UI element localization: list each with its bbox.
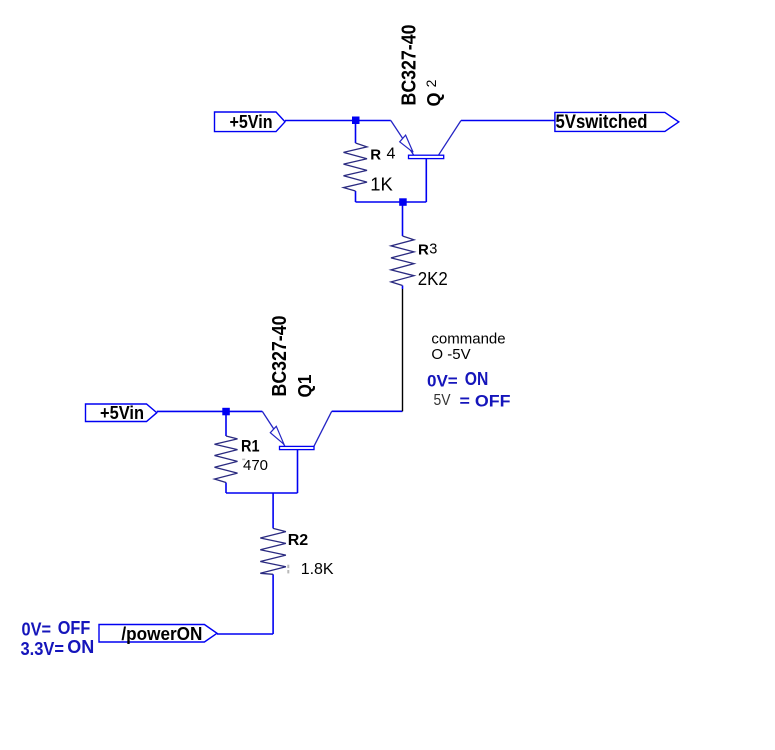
svg-text:ON: ON: [465, 369, 489, 389]
svg-text:R1: R1: [241, 437, 260, 456]
svg-text:470: 470: [243, 457, 268, 474]
svg-text:ON: ON: [67, 637, 94, 657]
svg-text:R: R: [418, 241, 429, 258]
svg-text:5V: 5V: [434, 392, 451, 409]
svg-text:OFF: OFF: [58, 618, 91, 638]
svg-text:O -5V: O -5V: [431, 346, 470, 363]
svg-text:3.3V=: 3.3V=: [21, 639, 65, 659]
svg-text:commande: commande: [431, 330, 505, 347]
svg-text:0V=: 0V=: [22, 619, 52, 639]
svg-text:0V=: 0V=: [427, 372, 458, 391]
svg-text:2K2: 2K2: [418, 269, 448, 289]
svg-text:= OFF: = OFF: [460, 391, 511, 410]
svg-text:3: 3: [429, 242, 437, 258]
svg-text:BC327-40: BC327-40: [399, 25, 421, 106]
svg-text:+5Vin: +5Vin: [230, 112, 273, 132]
svg-text:2: 2: [423, 79, 439, 87]
svg-text:+5Vin: +5Vin: [100, 403, 144, 423]
svg-text:4: 4: [387, 146, 396, 163]
svg-text:Q: Q: [424, 92, 444, 106]
svg-text:R: R: [370, 147, 381, 164]
svg-text:R2: R2: [288, 532, 309, 549]
svg-text:Q1: Q1: [295, 375, 315, 398]
svg-text:1.8K: 1.8K: [301, 561, 334, 578]
svg-text:BC327-40: BC327-40: [269, 316, 291, 397]
svg-text:1K: 1K: [370, 174, 393, 194]
svg-text:5Vswitched: 5Vswitched: [556, 112, 648, 133]
svg-text:/powerON: /powerON: [121, 624, 202, 644]
